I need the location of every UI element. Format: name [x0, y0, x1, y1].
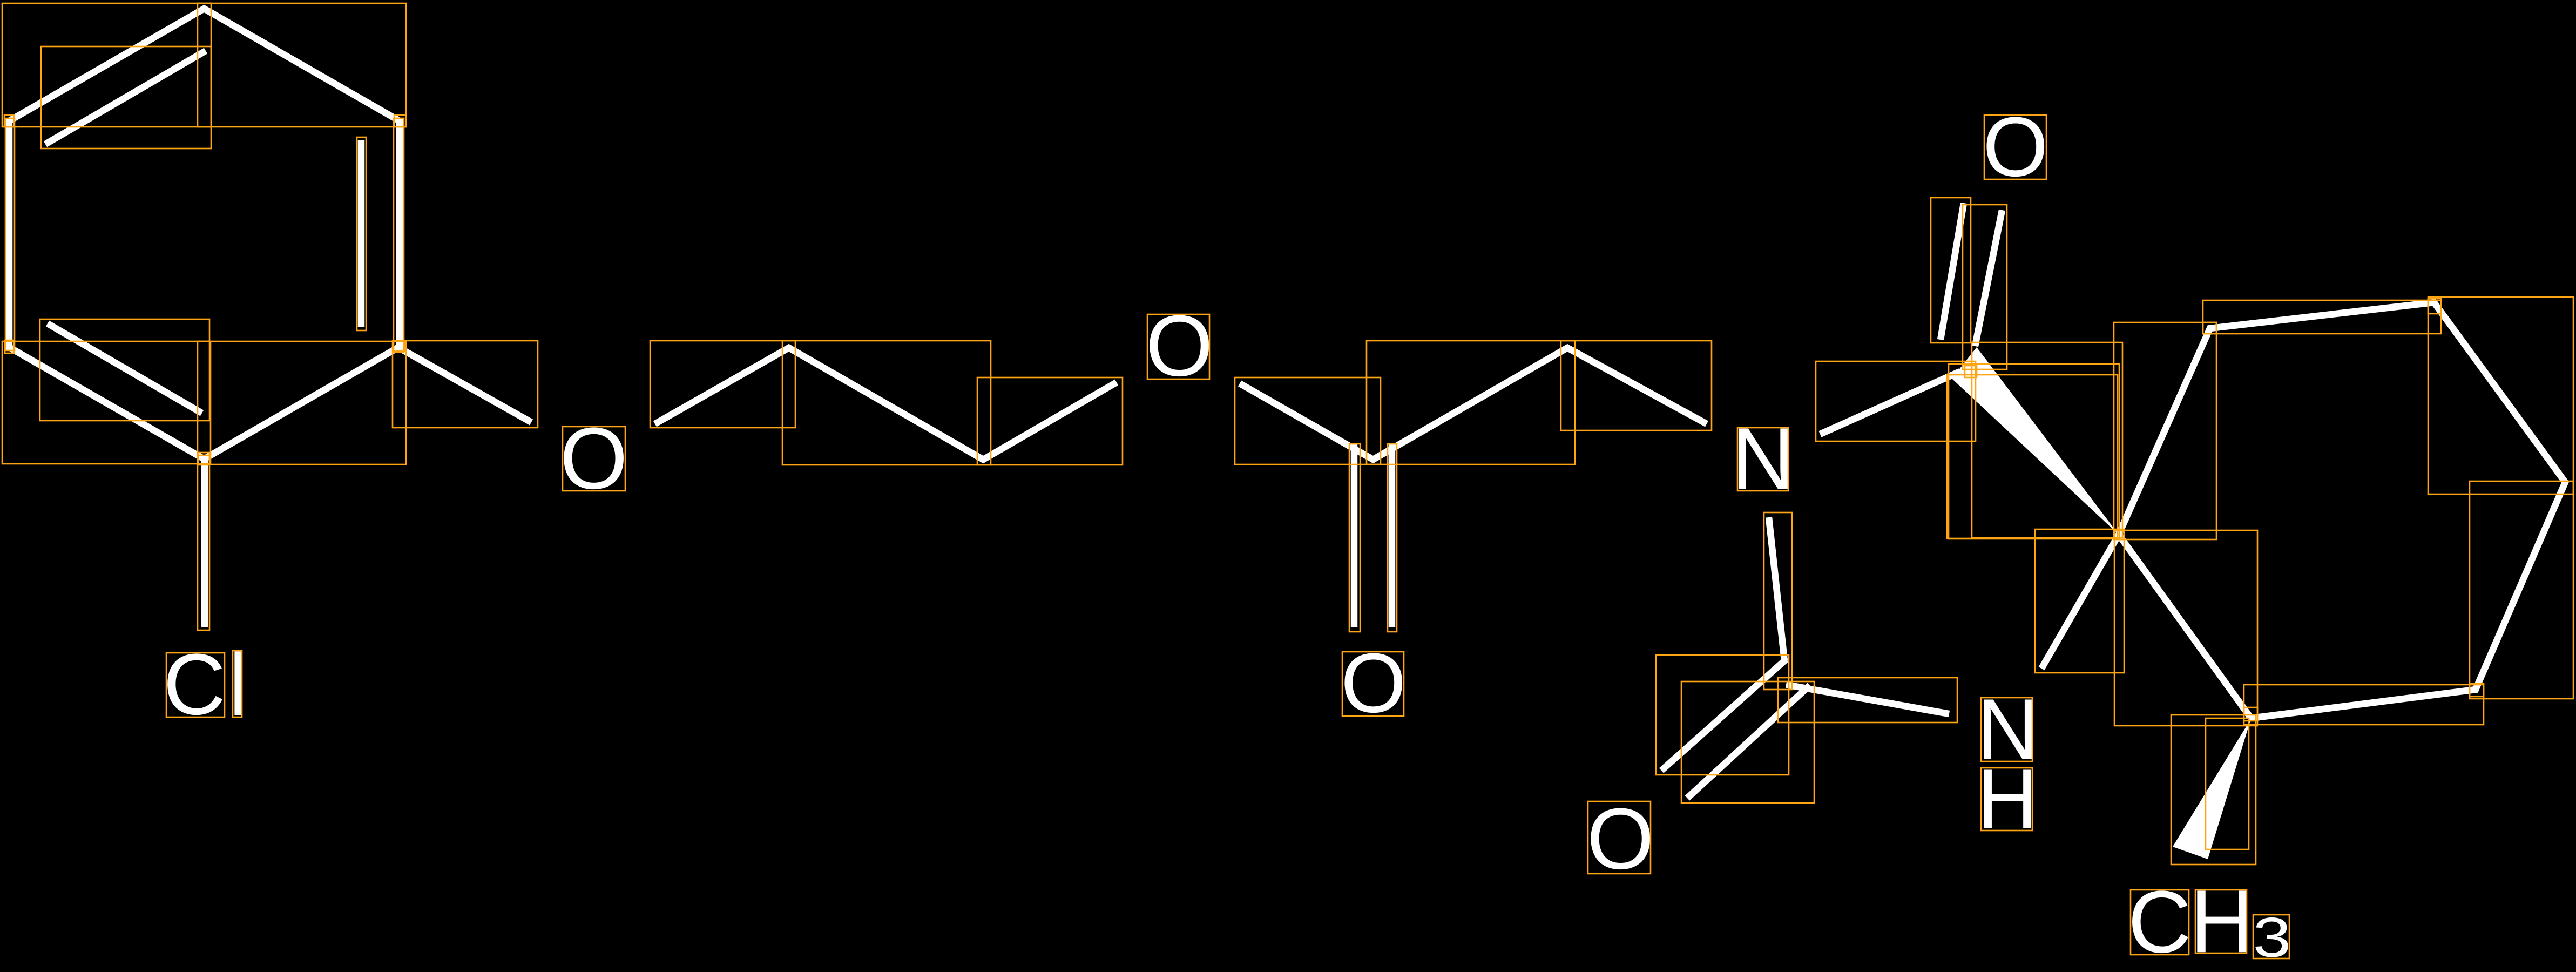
svg-text:N: N [1732, 410, 1795, 508]
svg-text:3: 3 [2253, 906, 2291, 969]
svg-text:H: H [1977, 752, 2038, 846]
svg-text:O: O [560, 410, 628, 508]
svg-text:C: C [163, 637, 226, 733]
svg-text:O: O [1146, 298, 1213, 395]
svg-text:H: H [2190, 872, 2254, 971]
svg-text:C: C [2128, 873, 2192, 971]
